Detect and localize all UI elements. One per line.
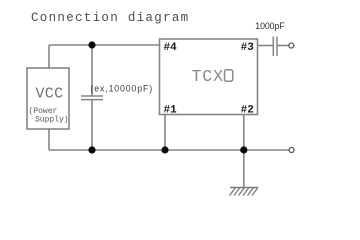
capacitor C1 top lead: [91, 45, 93, 96]
svg-text:#4: #4: [164, 42, 178, 54]
node A junction dot: [88, 41, 95, 48]
pin label #4: [164, 42, 178, 54]
wire TCXO pin #1 lead: [164, 115, 166, 151]
wire TCXO pin #3 to capacitor C2: [258, 45, 274, 47]
capacitor C2 value label 1000pF: [255, 21, 285, 31]
svg-text:Supply): Supply): [35, 116, 69, 125]
op TCXO box U1: [160, 39, 258, 115]
terminal T1 open circle: [289, 43, 294, 48]
wire bottom rail node B to node C: [92, 149, 165, 151]
capacitor C1 bottom lead: [91, 100, 93, 150]
svg-text:VCC: VCC: [36, 86, 64, 103]
power supply VCC box: [27, 68, 69, 129]
wire VCC bottom lead: [48, 129, 50, 150]
node B junction dot: [88, 146, 95, 153]
wire bottom rail node C to node D: [165, 149, 244, 151]
node C junction dot: [161, 146, 168, 153]
title "Connection diagram": [31, 11, 189, 25]
svg-text:(ex,10000pF): (ex,10000pF): [91, 84, 154, 94]
wire bottom rail VCC to node B: [49, 149, 92, 151]
ground symbol: [230, 188, 259, 196]
svg-text:Connection diagram: Connection diagram: [31, 11, 189, 25]
wire top horizontal VCC to node A: [49, 44, 92, 46]
svg-text:#3: #3: [241, 42, 255, 54]
node D junction dot: [240, 146, 247, 153]
terminal T2 open circle: [289, 148, 294, 153]
wire node D to ground: [243, 150, 245, 188]
capacitor C1 plates: [81, 96, 103, 100]
wire capacitor C2 to terminal T1: [277, 45, 289, 47]
capacitor C1 value label (ex,10000pF): [91, 84, 154, 94]
wire VCC top lead: [48, 45, 50, 68]
svg-text:TCX: TCX: [192, 67, 224, 86]
svg-text:1000pF: 1000pF: [255, 21, 285, 31]
pin label #2: [241, 104, 254, 116]
wire bottom rail node D to terminal T2: [244, 149, 289, 151]
capacitor C2 plates: [273, 37, 277, 57]
wire TCXO pin #2 lead: [243, 115, 245, 151]
pin label #3: [241, 42, 255, 54]
svg-text:#2: #2: [241, 104, 254, 116]
wire node A to TCXO pin #4: [92, 44, 160, 46]
pin label #1: [164, 104, 178, 116]
